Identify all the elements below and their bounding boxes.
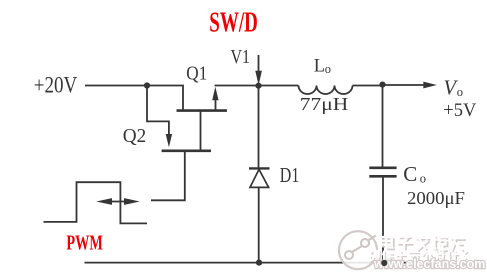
svg-text:D1: D1 xyxy=(280,163,300,187)
svg-text:o: o xyxy=(325,62,331,76)
svg-text:C: C xyxy=(403,162,417,186)
svg-text:2000μF: 2000μF xyxy=(407,188,465,208)
svg-text:+20V: +20V xyxy=(34,73,78,98)
svg-text:Q1: Q1 xyxy=(186,63,207,85)
svg-text:PWM: PWM xyxy=(66,230,103,254)
svg-text:V1: V1 xyxy=(231,46,251,68)
svg-text:L: L xyxy=(314,56,325,76)
svg-text:o: o xyxy=(420,172,426,186)
svg-text:www.elecfans.com: www.elecfans.com xyxy=(373,257,485,271)
svg-text:SW/D: SW/D xyxy=(209,7,257,38)
svg-text:77μH: 77μH xyxy=(300,94,349,114)
svg-text:Q2: Q2 xyxy=(123,125,147,147)
svg-text:o: o xyxy=(457,85,463,99)
svg-text:+5V: +5V xyxy=(443,101,477,121)
